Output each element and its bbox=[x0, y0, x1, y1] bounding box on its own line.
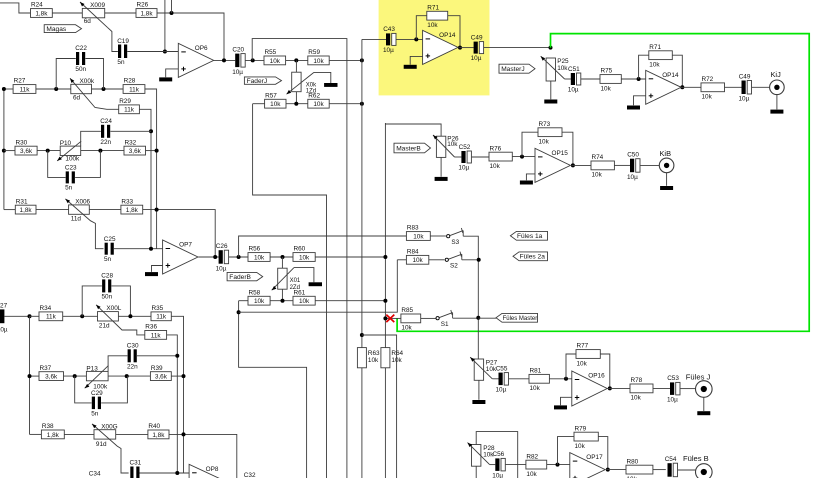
wiper P26 bbox=[433, 135, 455, 157]
wire bbox=[30, 433, 42, 435]
yellow highlight box bbox=[379, 0, 490, 95]
svg-text:R57: R57 bbox=[265, 92, 277, 99]
resistor R85 bbox=[401, 314, 421, 323]
junction bbox=[383, 316, 387, 320]
junction bbox=[564, 377, 568, 381]
resistor R57 bbox=[265, 99, 286, 108]
wire C29 right bbox=[101, 376, 127, 403]
capacitor C55 bbox=[499, 373, 503, 386]
junction bbox=[414, 37, 418, 41]
junction bbox=[73, 374, 77, 378]
resistor R26 bbox=[136, 9, 157, 18]
wire bbox=[37, 150, 60, 152]
svg-text:OP16: OP16 bbox=[588, 373, 605, 380]
wiper X006 to C25 bbox=[65, 199, 103, 249]
svg-text:R40: R40 bbox=[148, 423, 160, 430]
wire bbox=[725, 86, 742, 88]
arrow bbox=[92, 424, 97, 428]
wire bbox=[64, 433, 94, 435]
wire vertical A bbox=[139, 109, 151, 248]
junction bbox=[294, 58, 298, 62]
resistor R63 bbox=[357, 348, 366, 368]
wire bbox=[565, 78, 571, 80]
arrow bbox=[272, 286, 277, 290]
svg-text:R34: R34 bbox=[40, 305, 52, 312]
junction bbox=[383, 255, 387, 259]
wire left bus vertical bbox=[3, 89, 5, 210]
svg-text:10k: 10k bbox=[631, 395, 642, 402]
svg-text:KiB: KiB bbox=[660, 149, 672, 158]
capacitor C29 bbox=[92, 397, 95, 410]
svg-text:10µ: 10µ bbox=[496, 387, 507, 394]
svg-text:10k: 10k bbox=[401, 325, 412, 332]
net label Füles 2a bbox=[513, 252, 548, 261]
capacitor C28 bbox=[102, 279, 105, 292]
wire bbox=[776, 95, 778, 110]
wire bbox=[581, 78, 600, 80]
wiper X009 bbox=[80, 2, 108, 28]
potentiometer P13 bbox=[86, 371, 108, 380]
wire OP6 output bbox=[214, 59, 236, 61]
resistor R40 bbox=[148, 430, 169, 439]
resistor R55 bbox=[264, 56, 286, 65]
ground KiB bbox=[660, 186, 673, 190]
wire feedback bbox=[639, 55, 649, 79]
capacitor C43 bbox=[386, 33, 390, 45]
wire bbox=[246, 59, 265, 61]
svg-text:R61: R61 bbox=[294, 289, 306, 296]
op-amp OP8 bbox=[189, 464, 226, 478]
wire bbox=[294, 268, 314, 283]
wire OP16 output bbox=[607, 387, 630, 389]
wire bbox=[114, 248, 163, 250]
svg-text:10k: 10k bbox=[601, 85, 612, 92]
potentiometer P28 bbox=[472, 445, 481, 467]
wire op6 + to ground bbox=[166, 69, 179, 77]
wiper P25 bbox=[541, 56, 565, 79]
svg-text:10k: 10k bbox=[702, 94, 713, 101]
net label MasterB bbox=[394, 143, 431, 153]
svg-text:10k: 10k bbox=[254, 254, 265, 261]
svg-text:10µ: 10µ bbox=[458, 165, 469, 172]
resistor R36 bbox=[145, 331, 167, 340]
net label Füles Master bbox=[496, 313, 538, 322]
wire bbox=[397, 259, 406, 261]
wire bbox=[492, 378, 498, 380]
wire bbox=[171, 0, 173, 13]
resistor R58 bbox=[248, 296, 270, 305]
ground OP16 bbox=[554, 405, 567, 409]
wire bbox=[547, 464, 570, 466]
arrow bbox=[65, 199, 70, 203]
wire OP14 output bbox=[459, 47, 474, 49]
wire bbox=[549, 378, 571, 380]
wire C30 right bbox=[137, 355, 177, 357]
svg-text:100k: 100k bbox=[65, 156, 80, 163]
wire bbox=[157, 13, 224, 60]
svg-text:R78: R78 bbox=[631, 377, 643, 384]
wire J low bus bbox=[253, 104, 327, 478]
svg-text:3,6k: 3,6k bbox=[155, 374, 168, 381]
potentiometer X00G bbox=[94, 430, 116, 439]
junction bbox=[28, 374, 32, 378]
wire bbox=[621, 78, 645, 80]
capacitor C23 bbox=[66, 171, 69, 183]
wire feedback bbox=[562, 132, 573, 165]
wiper P13 bbox=[85, 366, 109, 389]
wire to C43 bbox=[362, 38, 386, 40]
svg-text:R32: R32 bbox=[125, 139, 137, 146]
wire bbox=[453, 317, 479, 319]
resistor R71 (right) bbox=[649, 51, 673, 60]
wire bbox=[127, 51, 178, 53]
wire bbox=[752, 86, 770, 88]
wire bbox=[512, 156, 535, 158]
junction bbox=[281, 255, 285, 259]
wire bbox=[169, 434, 237, 478]
svg-text:10µ: 10µ bbox=[667, 397, 678, 404]
svg-text:S2: S2 bbox=[450, 263, 458, 270]
wire bbox=[329, 59, 362, 61]
svg-text:OP17: OP17 bbox=[586, 454, 603, 461]
resistor R39 bbox=[150, 372, 171, 381]
svg-text:OP14: OP14 bbox=[439, 32, 456, 39]
svg-text:C22: C22 bbox=[75, 45, 87, 52]
junction bbox=[383, 299, 387, 303]
wire C22 left bbox=[56, 59, 76, 90]
wire C28 right bbox=[112, 286, 131, 316]
wire bbox=[281, 257, 283, 268]
wire to C19 bbox=[108, 28, 118, 52]
wire bbox=[506, 464, 526, 466]
wire bbox=[640, 164, 659, 166]
svg-text:R36: R36 bbox=[145, 324, 157, 331]
svg-text:R29: R29 bbox=[119, 98, 131, 105]
arrow bbox=[80, 2, 85, 7]
resistor R80 bbox=[626, 465, 653, 474]
junction bbox=[476, 316, 480, 320]
capacitor C50 bbox=[630, 159, 634, 173]
wire bbox=[509, 378, 529, 380]
svg-text:21d: 21d bbox=[99, 322, 110, 329]
wire bbox=[315, 256, 385, 258]
wire bbox=[678, 469, 696, 471]
svg-text:R79: R79 bbox=[575, 425, 587, 432]
svg-text:R83: R83 bbox=[407, 225, 419, 232]
junction bbox=[54, 87, 58, 91]
arrow bbox=[57, 157, 62, 161]
junction bbox=[163, 50, 167, 54]
resistor R60 bbox=[293, 253, 315, 262]
op-amp OP15 bbox=[535, 148, 570, 182]
wire bbox=[4, 150, 15, 152]
svg-text:1,8k: 1,8k bbox=[47, 432, 60, 439]
svg-text:X009: X009 bbox=[90, 2, 105, 9]
wire C29 left bbox=[75, 376, 92, 403]
svg-text:10k: 10k bbox=[412, 257, 423, 264]
wiper fader J bbox=[287, 72, 314, 94]
resistor R83 bbox=[406, 232, 430, 241]
svg-text:R63: R63 bbox=[368, 350, 380, 357]
junction bbox=[149, 247, 153, 251]
wire bbox=[653, 387, 670, 389]
svg-text:50n: 50n bbox=[75, 66, 86, 73]
svg-text:X006: X006 bbox=[75, 199, 90, 206]
junction bbox=[608, 386, 612, 390]
resistor R27 bbox=[13, 85, 36, 94]
resistor R84 bbox=[406, 255, 428, 264]
wire feedback bbox=[566, 354, 576, 379]
op-amp OP6 bbox=[178, 43, 213, 77]
wire bus B mix bbox=[384, 123, 386, 348]
svg-text:R39: R39 bbox=[151, 365, 163, 372]
resistor R34 bbox=[39, 312, 63, 321]
svg-text:Magas: Magas bbox=[46, 26, 66, 33]
svg-text:R71: R71 bbox=[427, 4, 439, 11]
svg-text:R24: R24 bbox=[31, 2, 43, 9]
svg-text:R59: R59 bbox=[308, 49, 320, 56]
junction bbox=[222, 58, 226, 62]
wire bbox=[421, 317, 436, 319]
ground fader J bbox=[324, 83, 337, 87]
wire op16 + to ground bbox=[561, 397, 572, 405]
wiper X00G to C31 bbox=[92, 424, 129, 473]
svg-text:10k: 10k bbox=[539, 139, 550, 146]
svg-text:11k: 11k bbox=[151, 332, 162, 339]
svg-text:10µ: 10µ bbox=[383, 47, 394, 54]
svg-text:C34: C34 bbox=[89, 470, 101, 477]
svg-text:Füles J: Füles J bbox=[686, 372, 711, 381]
arrow bbox=[85, 384, 90, 388]
wire C28 left bbox=[82, 286, 102, 316]
wire OP15 output bbox=[572, 164, 592, 166]
wire feedback bbox=[558, 437, 575, 465]
svg-text:C25: C25 bbox=[104, 236, 116, 243]
junction bbox=[281, 299, 285, 303]
svg-text:OP8: OP8 bbox=[206, 466, 219, 473]
wire bbox=[171, 375, 183, 377]
junction bbox=[182, 374, 186, 378]
wire C24 right bbox=[110, 130, 151, 132]
svg-text:R31: R31 bbox=[16, 198, 28, 205]
resistor R32 bbox=[124, 146, 146, 155]
junction bbox=[2, 87, 6, 91]
svg-text:C52: C52 bbox=[459, 144, 471, 151]
capacitor C54 bbox=[668, 463, 672, 477]
svg-text:C43: C43 bbox=[383, 26, 395, 33]
svg-text:C26: C26 bbox=[216, 243, 228, 250]
svg-text:R35: R35 bbox=[152, 305, 164, 312]
svg-text:R81: R81 bbox=[530, 368, 542, 375]
resistor R31 bbox=[15, 205, 36, 214]
arrow bbox=[468, 443, 473, 448]
svg-text:R73: R73 bbox=[539, 121, 551, 128]
junction bbox=[360, 102, 364, 106]
resistor R28 bbox=[123, 85, 145, 94]
resistor R82 bbox=[526, 460, 547, 469]
svg-text:10µ: 10µ bbox=[568, 87, 579, 94]
svg-text:1,8k: 1,8k bbox=[126, 207, 139, 214]
wire bbox=[295, 92, 297, 104]
junction bbox=[2, 149, 6, 153]
op-amp OP16 bbox=[572, 371, 607, 406]
resistor R77 bbox=[576, 350, 600, 359]
wire bbox=[281, 289, 283, 301]
svg-text:X00k: X00k bbox=[80, 78, 95, 85]
resistor R56 bbox=[248, 253, 270, 262]
wire C23 right bbox=[75, 151, 100, 178]
resistor R35 bbox=[151, 312, 171, 321]
resistor R64 bbox=[381, 348, 390, 368]
ground KiJ bbox=[770, 110, 783, 114]
svg-text:1,8k: 1,8k bbox=[140, 10, 153, 17]
arrow bbox=[470, 357, 475, 362]
junction bbox=[294, 102, 298, 106]
junction bbox=[182, 432, 186, 436]
op-amp OP14 (right) bbox=[646, 70, 681, 104]
svg-text:P13: P13 bbox=[86, 366, 98, 373]
svg-text:C30: C30 bbox=[127, 343, 139, 350]
wire feedback bbox=[522, 132, 538, 156]
capacitor C24 bbox=[101, 125, 104, 138]
svg-text:10k: 10k bbox=[530, 385, 541, 392]
resistor R33 bbox=[121, 205, 143, 214]
wire bbox=[440, 157, 442, 176]
svg-text:KiJ: KiJ bbox=[771, 70, 782, 79]
junction bbox=[125, 374, 129, 378]
svg-text:10k: 10k bbox=[270, 58, 281, 65]
wire bbox=[666, 173, 668, 186]
ground OP7 bbox=[145, 272, 158, 276]
potentiometer P10 bbox=[60, 146, 80, 155]
svg-text:10µ: 10µ bbox=[471, 55, 482, 62]
connector KiJ bbox=[770, 80, 785, 95]
wiper fader B bbox=[272, 268, 294, 291]
wire feedback bbox=[672, 55, 682, 87]
wire bbox=[478, 317, 496, 319]
junction bbox=[98, 149, 102, 153]
switch S1 bbox=[436, 317, 439, 320]
wire bbox=[472, 156, 489, 158]
wire feedback bbox=[448, 16, 460, 48]
svg-text:R80: R80 bbox=[627, 458, 639, 465]
resistor R75 bbox=[600, 75, 621, 84]
wire bbox=[295, 60, 297, 72]
potentiometer P26 bbox=[436, 136, 445, 157]
capacitor C25 bbox=[105, 243, 108, 255]
svg-text:R72: R72 bbox=[702, 76, 714, 83]
svg-text:S3: S3 bbox=[451, 239, 459, 246]
svg-text:10k: 10k bbox=[490, 163, 501, 170]
svg-text:X00L: X00L bbox=[106, 305, 121, 312]
wire MasterB feed bbox=[385, 124, 441, 136]
svg-text:OP14: OP14 bbox=[662, 72, 679, 79]
wire OP14 output bbox=[681, 86, 702, 88]
wire bus (FaderJ loop) bbox=[252, 39, 347, 478]
resistor R29 bbox=[119, 105, 140, 114]
junction bbox=[46, 149, 50, 153]
capacitor C51 bbox=[571, 73, 575, 85]
wire op7 + to ground bbox=[152, 266, 163, 272]
junction bbox=[155, 208, 159, 212]
svg-text:10k: 10k bbox=[391, 357, 402, 364]
wire bbox=[478, 380, 480, 400]
svg-text:MasterJ: MasterJ bbox=[501, 66, 524, 73]
wire highlighted net (green) bbox=[397, 34, 809, 332]
wire bbox=[4, 209, 15, 211]
resistor R38 bbox=[41, 430, 64, 439]
wire switch column bbox=[463, 236, 478, 359]
svg-text:Füles B: Füles B bbox=[683, 454, 709, 463]
switch S2 bbox=[445, 258, 448, 261]
wire bus J mix lower bbox=[361, 368, 363, 478]
wiper P10 bbox=[57, 141, 81, 161]
svg-text:R33: R33 bbox=[121, 198, 133, 205]
potentiometer X009 bbox=[82, 8, 104, 17]
ground P25 bbox=[544, 100, 557, 104]
wire bbox=[118, 315, 151, 317]
wire bbox=[0, 3, 31, 13]
svg-text:6d: 6d bbox=[73, 94, 81, 101]
svg-text:R26: R26 bbox=[137, 2, 149, 9]
svg-text:FaderJ: FaderJ bbox=[247, 78, 268, 85]
switch S3 bbox=[447, 235, 450, 238]
wire bbox=[270, 300, 293, 302]
wire bbox=[315, 300, 385, 302]
resistor R76 bbox=[489, 152, 512, 161]
svg-text:10k: 10k bbox=[557, 65, 568, 72]
wire left bus bbox=[4, 88, 13, 90]
svg-text:5n: 5n bbox=[91, 410, 99, 417]
potentiometer X00L bbox=[98, 312, 119, 321]
junction bbox=[170, 11, 174, 15]
svg-text:22n: 22n bbox=[100, 139, 111, 146]
wire bbox=[164, 0, 166, 52]
wire bbox=[475, 466, 477, 478]
net label MasterJ bbox=[499, 64, 535, 73]
svg-text:C49: C49 bbox=[471, 34, 483, 41]
svg-text:R75: R75 bbox=[601, 68, 613, 75]
capacitor C53 bbox=[670, 382, 674, 395]
svg-text:MasterB: MasterB bbox=[396, 145, 421, 152]
ground OP14 right bbox=[627, 106, 640, 110]
capacitor C52 bbox=[461, 151, 465, 163]
svg-text:10k: 10k bbox=[254, 298, 265, 305]
svg-text:10k: 10k bbox=[649, 62, 660, 69]
junction bbox=[458, 46, 462, 50]
svg-text:FaderB: FaderB bbox=[229, 274, 251, 281]
wire bbox=[462, 259, 479, 261]
svg-text:11k: 11k bbox=[124, 107, 135, 114]
svg-text:R82: R82 bbox=[526, 453, 538, 460]
svg-text:C51: C51 bbox=[568, 66, 580, 73]
wire left bus 2 bbox=[29, 316, 31, 434]
wire bbox=[30, 315, 40, 317]
junction bbox=[80, 314, 84, 318]
svg-text:1,8k: 1,8k bbox=[35, 10, 48, 17]
wire vertical D bbox=[171, 316, 183, 473]
svg-text:X00G: X00G bbox=[101, 424, 117, 431]
potentiometer fader B (P22) bbox=[278, 268, 287, 289]
svg-text:11k: 11k bbox=[46, 314, 57, 321]
svg-text:10µ: 10µ bbox=[739, 96, 750, 103]
wire bbox=[63, 315, 98, 317]
junction bbox=[606, 468, 610, 472]
svg-text:OP7: OP7 bbox=[179, 242, 192, 249]
svg-text:C55: C55 bbox=[496, 365, 508, 372]
svg-text:10k: 10k bbox=[299, 298, 310, 305]
wire vertical C bbox=[167, 335, 178, 473]
